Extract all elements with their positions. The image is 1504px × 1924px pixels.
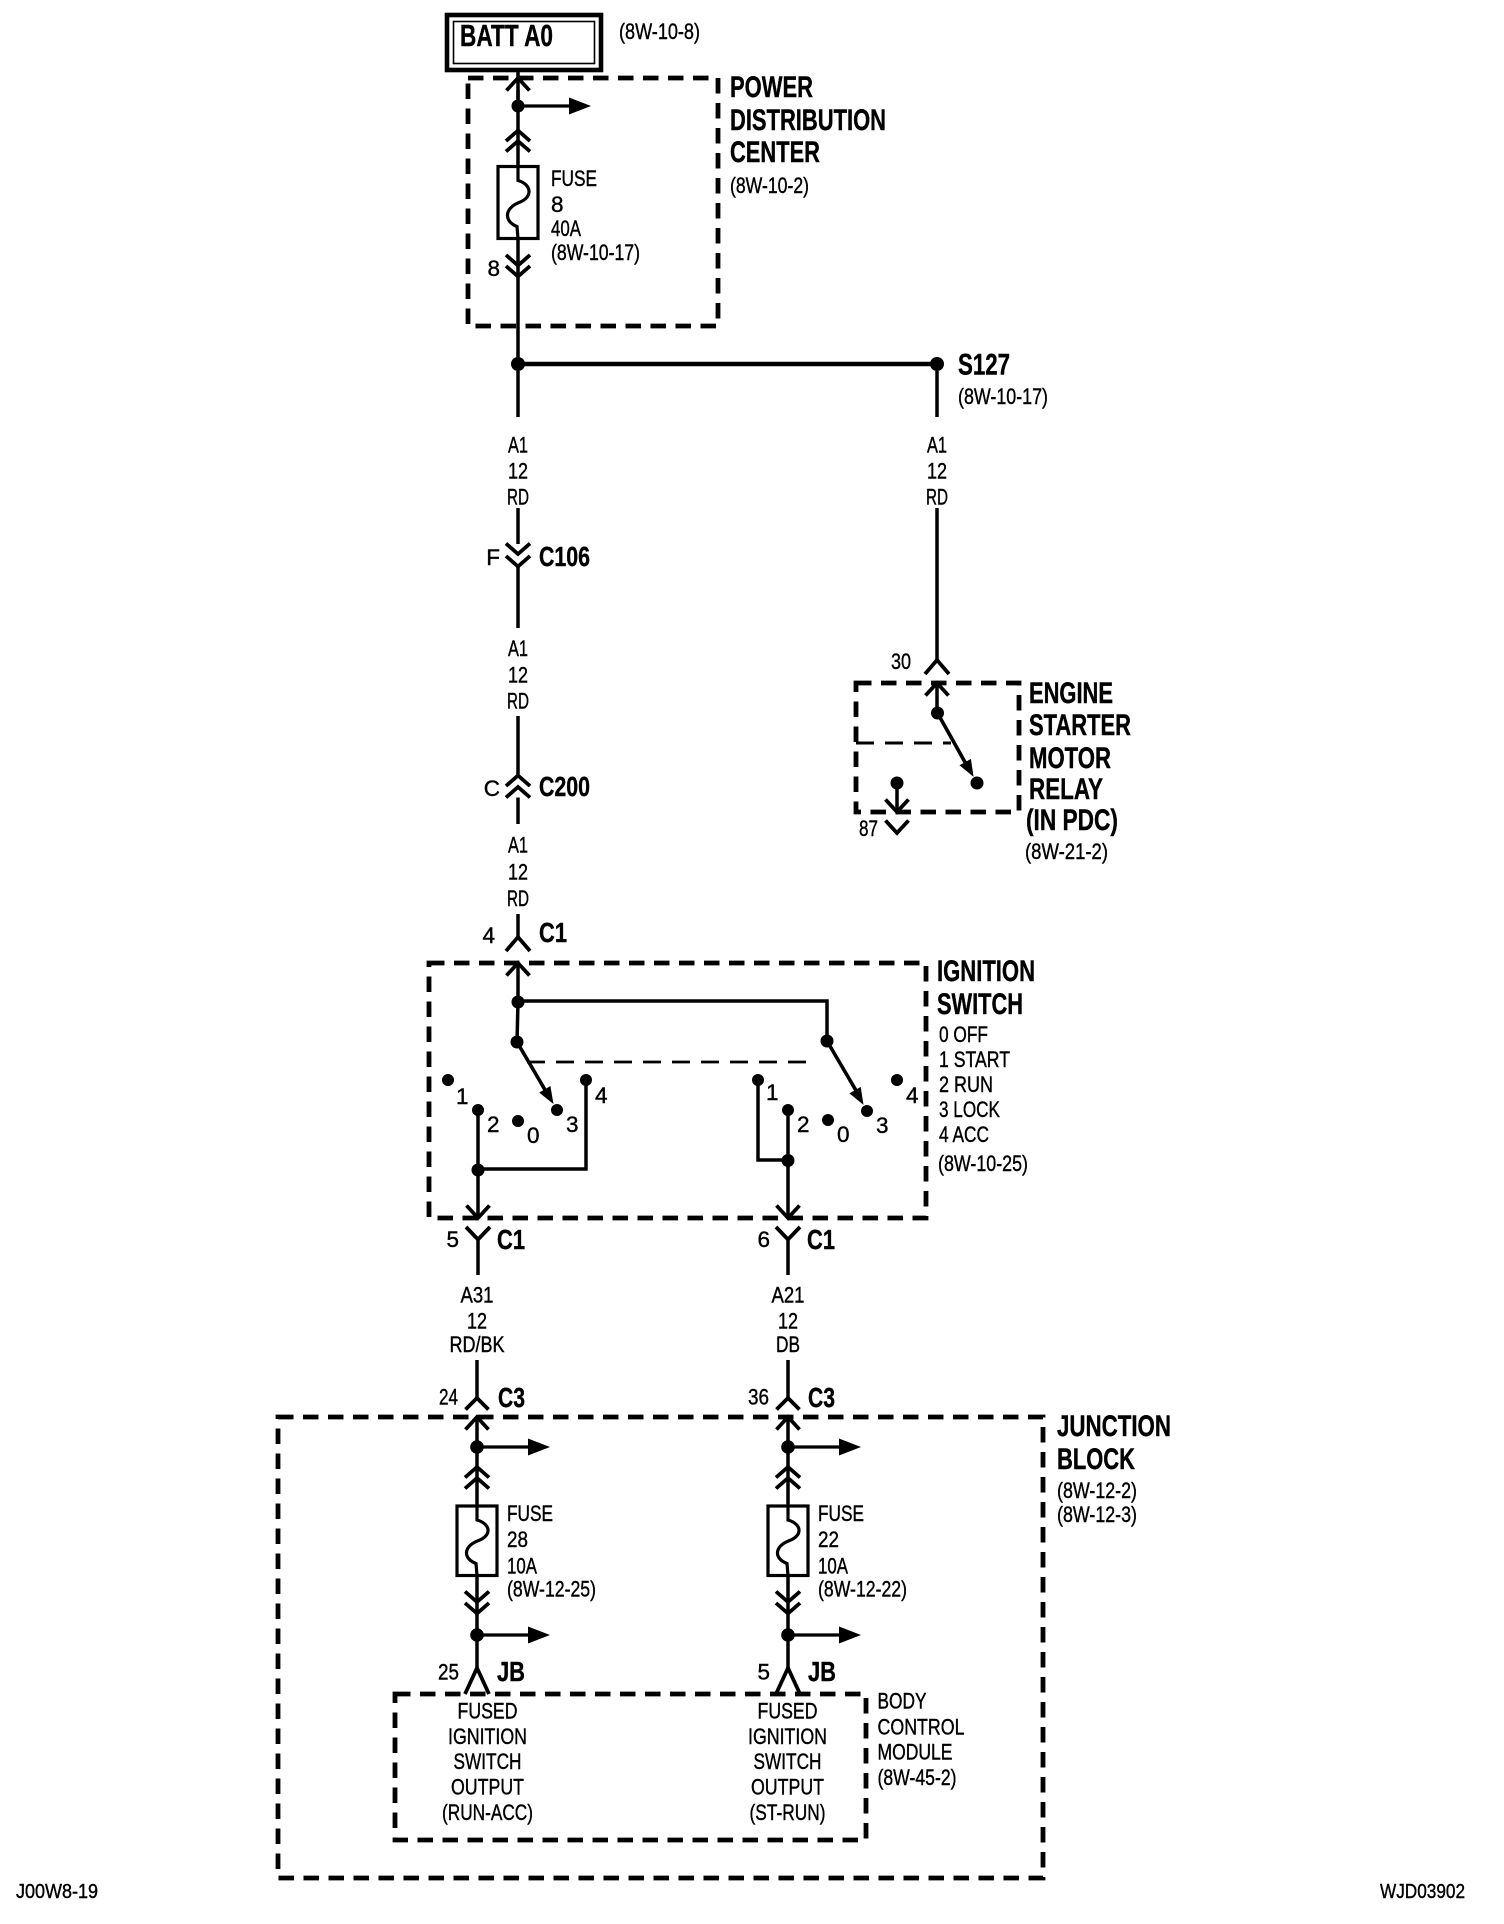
wire segment below splice [516,371,520,417]
svg-text:3: 3 [566,1112,579,1137]
svg-text:C1: C1 [539,917,567,948]
right wafer pivot dot [821,1035,834,1048]
relay wiper arm with arrowhead [938,713,984,790]
svg-text:DISTRIBUTION: DISTRIBUTION [730,104,886,137]
left wafer wires from 2 and 4 to output [472,1080,587,1217]
connector chevrons below fuse 22 [776,1576,800,1636]
ignition switch internal dashed line [527,1061,817,1064]
svg-text:SWITCH: SWITCH [937,988,1023,1021]
right output boundary arrow [777,1206,800,1219]
svg-text:2: 2 [487,1112,500,1137]
output junction dot with arrow fuse 28 side [470,1627,550,1644]
JB pin 25 connector fork [438,1656,525,1694]
wire C106 down [516,567,520,629]
svg-text:FUSED: FUSED [758,1699,818,1724]
svg-text:A1: A1 [927,433,947,458]
svg-text:(8W-10-2): (8W-10-2) [730,173,809,198]
wire to JB pin 25 [475,1635,479,1668]
svg-text:C1: C1 [497,1224,525,1255]
svg-text:RD: RD [926,485,948,510]
svg-text:0: 0 [527,1123,540,1148]
svg-text:(8W-12-25): (8W-12-25) [507,1577,596,1602]
svg-text:A1: A1 [508,433,528,458]
engine starter motor relay dashed box [856,683,1019,812]
svg-text:28: 28 [507,1527,528,1552]
svg-text:A1: A1 [508,636,528,661]
svg-text:1: 1 [766,1080,779,1105]
junction block boundary arrow pin 36 [777,1417,800,1447]
svg-text:12: 12 [927,459,947,484]
right wiper arm to position 3 [827,1041,864,1105]
svg-text:RELAY: RELAY [1029,773,1103,806]
svg-text:5: 5 [757,1660,770,1685]
JB pin 5 connector fork [757,1656,836,1694]
svg-text:BODY: BODY [878,1689,927,1714]
svg-text:36: 36 [748,1385,769,1410]
svg-text:(IN PDC): (IN PDC) [1026,804,1118,837]
relay pin 87 boundary arrow [886,800,909,813]
relay boundary arrow pin 30 [926,683,949,709]
svg-text:22: 22 [818,1527,839,1552]
svg-text:0 OFF: 0 OFF [939,1022,988,1047]
svg-text:4 ACC: 4 ACC [939,1122,989,1147]
svg-text:SWITCH: SWITCH [454,1749,522,1774]
svg-text:IGNITION: IGNITION [748,1724,827,1749]
svg-text:FUSE: FUSE [818,1501,864,1526]
connector chevrons below fuse 28 [465,1576,489,1636]
svg-text:C3: C3 [808,1382,835,1413]
BCM right output label FUSED IGNITION SWITCH OUTPUT (ST-RUN) [748,1699,827,1826]
svg-text:4: 4 [906,1083,919,1108]
fuse 8 40A in PDC [498,167,538,239]
svg-text:OUTPUT: OUTPUT [751,1775,824,1800]
ignition switch dashed box [429,963,926,1218]
svg-text:(8W-10-17): (8W-10-17) [958,384,1048,409]
svg-text:8: 8 [551,192,564,217]
svg-text:12: 12 [508,860,528,885]
svg-text:10A: 10A [507,1554,537,1579]
fuse 28 10A in junction block [457,1506,497,1576]
right wafer wires from 1 and 2 to output [758,1080,795,1217]
svg-text:MOTOR: MOTOR [1029,742,1111,775]
wire to connector C3 pin 36 [786,1360,790,1398]
svg-text:(8W-10-8): (8W-10-8) [619,19,700,44]
relay pin 30 connector fork [891,649,949,674]
svg-text:SWITCH: SWITCH [754,1749,822,1774]
wire to connector C3 pin 24 [475,1360,479,1398]
svg-text:(8W-10-25): (8W-10-25) [938,1151,1028,1176]
svg-text:0: 0 [837,1122,850,1147]
feed wire to left wafer pivot [511,1002,524,1049]
svg-text:RD: RD [507,886,529,911]
footer sheet code J00W8-19 [16,1881,98,1903]
svg-text:6: 6 [757,1227,770,1252]
relay internal dashed line [856,742,951,745]
svg-text:POWER: POWER [730,71,813,104]
splice node S127 bus wire [511,357,944,371]
wire battery feed to PDC [516,70,520,99]
wire label A21 12 DB [772,1283,805,1358]
svg-text:(RUN-ACC): (RUN-ACC) [442,1800,533,1825]
right wafer position contacts 1 2 0 3 4 [752,1074,919,1147]
left output boundary arrow [467,1206,490,1219]
svg-text:5: 5 [446,1227,459,1252]
svg-text:BLOCK: BLOCK [1057,1443,1136,1476]
fuse 28 labels FUSE 28 10A (8W-12-25) [507,1501,596,1602]
connector C1 pin 4 at ignition switch [482,917,567,951]
svg-text:IGNITION: IGNITION [937,955,1035,988]
relay label ENGINE STARTER MOTOR RELAY (IN PDC) (8W-21-2) [1025,677,1131,864]
svg-text:DB: DB [776,1332,800,1357]
footer drawing number WJD03902 [1380,1881,1465,1903]
svg-text:A21: A21 [772,1283,805,1308]
svg-text:ENGINE: ENGINE [1029,677,1113,710]
svg-text:(8W-12-2): (8W-12-2) [1057,1478,1137,1503]
junction block label JUNCTION BLOCK (8W-12-2) (8W-12-3) [1057,1410,1171,1527]
feed junction dot with arrow fuse 28 side [470,1439,550,1456]
wire to JB pin 5 [786,1635,790,1668]
connector arrow into PDC at top edge [507,78,530,91]
ignition switch boundary arrow pin 4 [507,963,530,1002]
BCM left output label FUSED IGNITION SWITCH OUTPUT (RUN-ACC) [442,1699,533,1826]
connector chevrons above fuse 22 [776,1447,800,1506]
svg-text:2 RUN: 2 RUN [939,1072,993,1097]
svg-text:RD: RD [507,689,529,714]
feed wire to right wafer [518,1001,827,1041]
svg-text:12: 12 [508,459,528,484]
svg-text:JB: JB [808,1656,836,1687]
svg-text:4: 4 [595,1083,608,1108]
svg-text:3 LOCK: 3 LOCK [939,1097,1000,1122]
svg-text:A1: A1 [508,833,528,858]
svg-text:C1: C1 [807,1224,835,1255]
svg-text:CENTER: CENTER [730,136,820,169]
svg-text:JUNCTION: JUNCTION [1057,1410,1171,1443]
svg-text:FUSE: FUSE [551,166,597,191]
svg-text:87: 87 [859,816,878,841]
wire C200 down [516,798,520,825]
relay common pivot [931,707,944,720]
svg-text:RD/BK: RD/BK [450,1332,505,1357]
svg-text:C3: C3 [498,1382,525,1413]
svg-text:C: C [484,776,500,801]
svg-text:S127: S127 [958,349,1010,382]
junction block boundary arrow pin 24 [466,1417,489,1447]
svg-text:12: 12 [508,663,528,688]
wire label A1 12 RD (3) [507,833,529,912]
reference (8W-10-8) [619,19,700,44]
svg-text:IGNITION: IGNITION [448,1724,527,1749]
connector C3 pin 36 [748,1382,835,1413]
svg-text:OUTPUT: OUTPUT [451,1775,524,1800]
svg-text:CONTROL: CONTROL [878,1715,965,1740]
svg-text:24: 24 [439,1385,458,1410]
svg-text:STARTER: STARTER [1029,709,1131,742]
wire label A31 12 RD/BK [450,1283,505,1358]
connector chevrons above fuse 28 [465,1447,489,1506]
fuse 22 labels FUSE 22 10A (8W-12-22) [818,1501,907,1602]
svg-text:10A: 10A [818,1554,848,1579]
svg-text:(ST-RUN): (ST-RUN) [750,1800,826,1825]
in-line connector chevrons above fuse 8 [506,131,530,152]
wire S127 down to relay [935,371,939,417]
svg-text:FUSED: FUSED [458,1699,518,1724]
svg-text:FUSE: FUSE [507,1501,553,1526]
svg-text:MODULE: MODULE [878,1740,953,1765]
svg-text:12: 12 [467,1309,487,1334]
output junction dot with arrow fuse 22 side [781,1627,861,1644]
svg-text:(8W-12-3): (8W-12-3) [1057,1502,1137,1527]
connector C200 pin C [484,771,590,802]
wire label A1 12 RD (2) [507,636,529,714]
feed junction dot with arrow fuse 22 side [781,1439,861,1456]
left wiper arm to position 3 [517,1042,554,1104]
svg-text:(8W-10-17): (8W-10-17) [551,240,640,265]
svg-text:BATT A0: BATT A0 [460,18,553,53]
junction block dashed box [278,1417,1043,1878]
svg-text:(8W-12-22): (8W-12-22) [818,1577,907,1602]
svg-text:30: 30 [891,649,911,674]
svg-text:A31: A31 [461,1283,494,1308]
connector C106 pin F [486,541,590,572]
svg-text:RD: RD [507,485,529,510]
wire to connector C200 [516,716,520,776]
svg-text:25: 25 [438,1660,459,1685]
svg-text:3: 3 [876,1113,889,1138]
svg-text:1 START: 1 START [939,1047,1010,1072]
svg-text:(8W-21-2): (8W-21-2) [1025,839,1108,864]
svg-text:12: 12 [778,1309,798,1334]
svg-text:8: 8 [487,256,500,281]
svg-text:2: 2 [797,1112,810,1137]
wire label A1 12 RD (right) [926,433,948,510]
wire to connector C1 pin 4 [516,914,520,937]
battery feed box BATT A0 [447,15,601,70]
wire fuse 8 to splice S127 [516,238,520,364]
label BODY CONTROL MODULE (8W-45-2) [878,1689,965,1791]
junction dot with feed arrow inside PDC [512,90,592,167]
fuse 22 10A in junction block [768,1506,808,1576]
wire down to relay pin 30 [935,508,939,660]
svg-text:(8W-45-2): (8W-45-2) [878,1765,957,1790]
svg-text:40A: 40A [551,216,581,241]
connector chevrons below fuse 8 [506,255,530,277]
svg-text:1: 1 [456,1084,469,1109]
pin 87 connector chevron below relay [859,816,909,841]
connector C3 pin 24 [439,1382,525,1413]
connector C1 pin 6 [757,1224,835,1275]
relay contact 87 dot and wire [891,777,904,811]
connector C1 pin 5 [446,1224,525,1275]
PDC label POWER DISTRIBUTION CENTER (8W-10-2) [730,71,886,198]
svg-text:JB: JB [497,1656,525,1687]
wire to connector C106 [516,508,520,544]
fuse 8 value labels FUSE 8 40A (8W-10-17) [551,166,640,265]
svg-text:F: F [486,545,500,570]
svg-text:4: 4 [482,923,495,948]
pin 8 label [487,256,500,281]
svg-text:WJD03902: WJD03902 [1380,1881,1465,1903]
svg-text:C200: C200 [539,771,590,802]
power distribution center dashed box [468,78,718,326]
ignition switch label and positions [937,955,1035,1176]
svg-text:C106: C106 [539,541,590,572]
wire label A1 12 RD [507,433,529,510]
label S127 (8W-10-17) [958,349,1048,410]
svg-text:J00W8-19: J00W8-19 [16,1881,98,1903]
ignition switch feed junction [512,996,525,1009]
left wafer position contacts 1 2 0 3 4 [442,1074,608,1148]
body control module dashed box [395,1694,866,1840]
